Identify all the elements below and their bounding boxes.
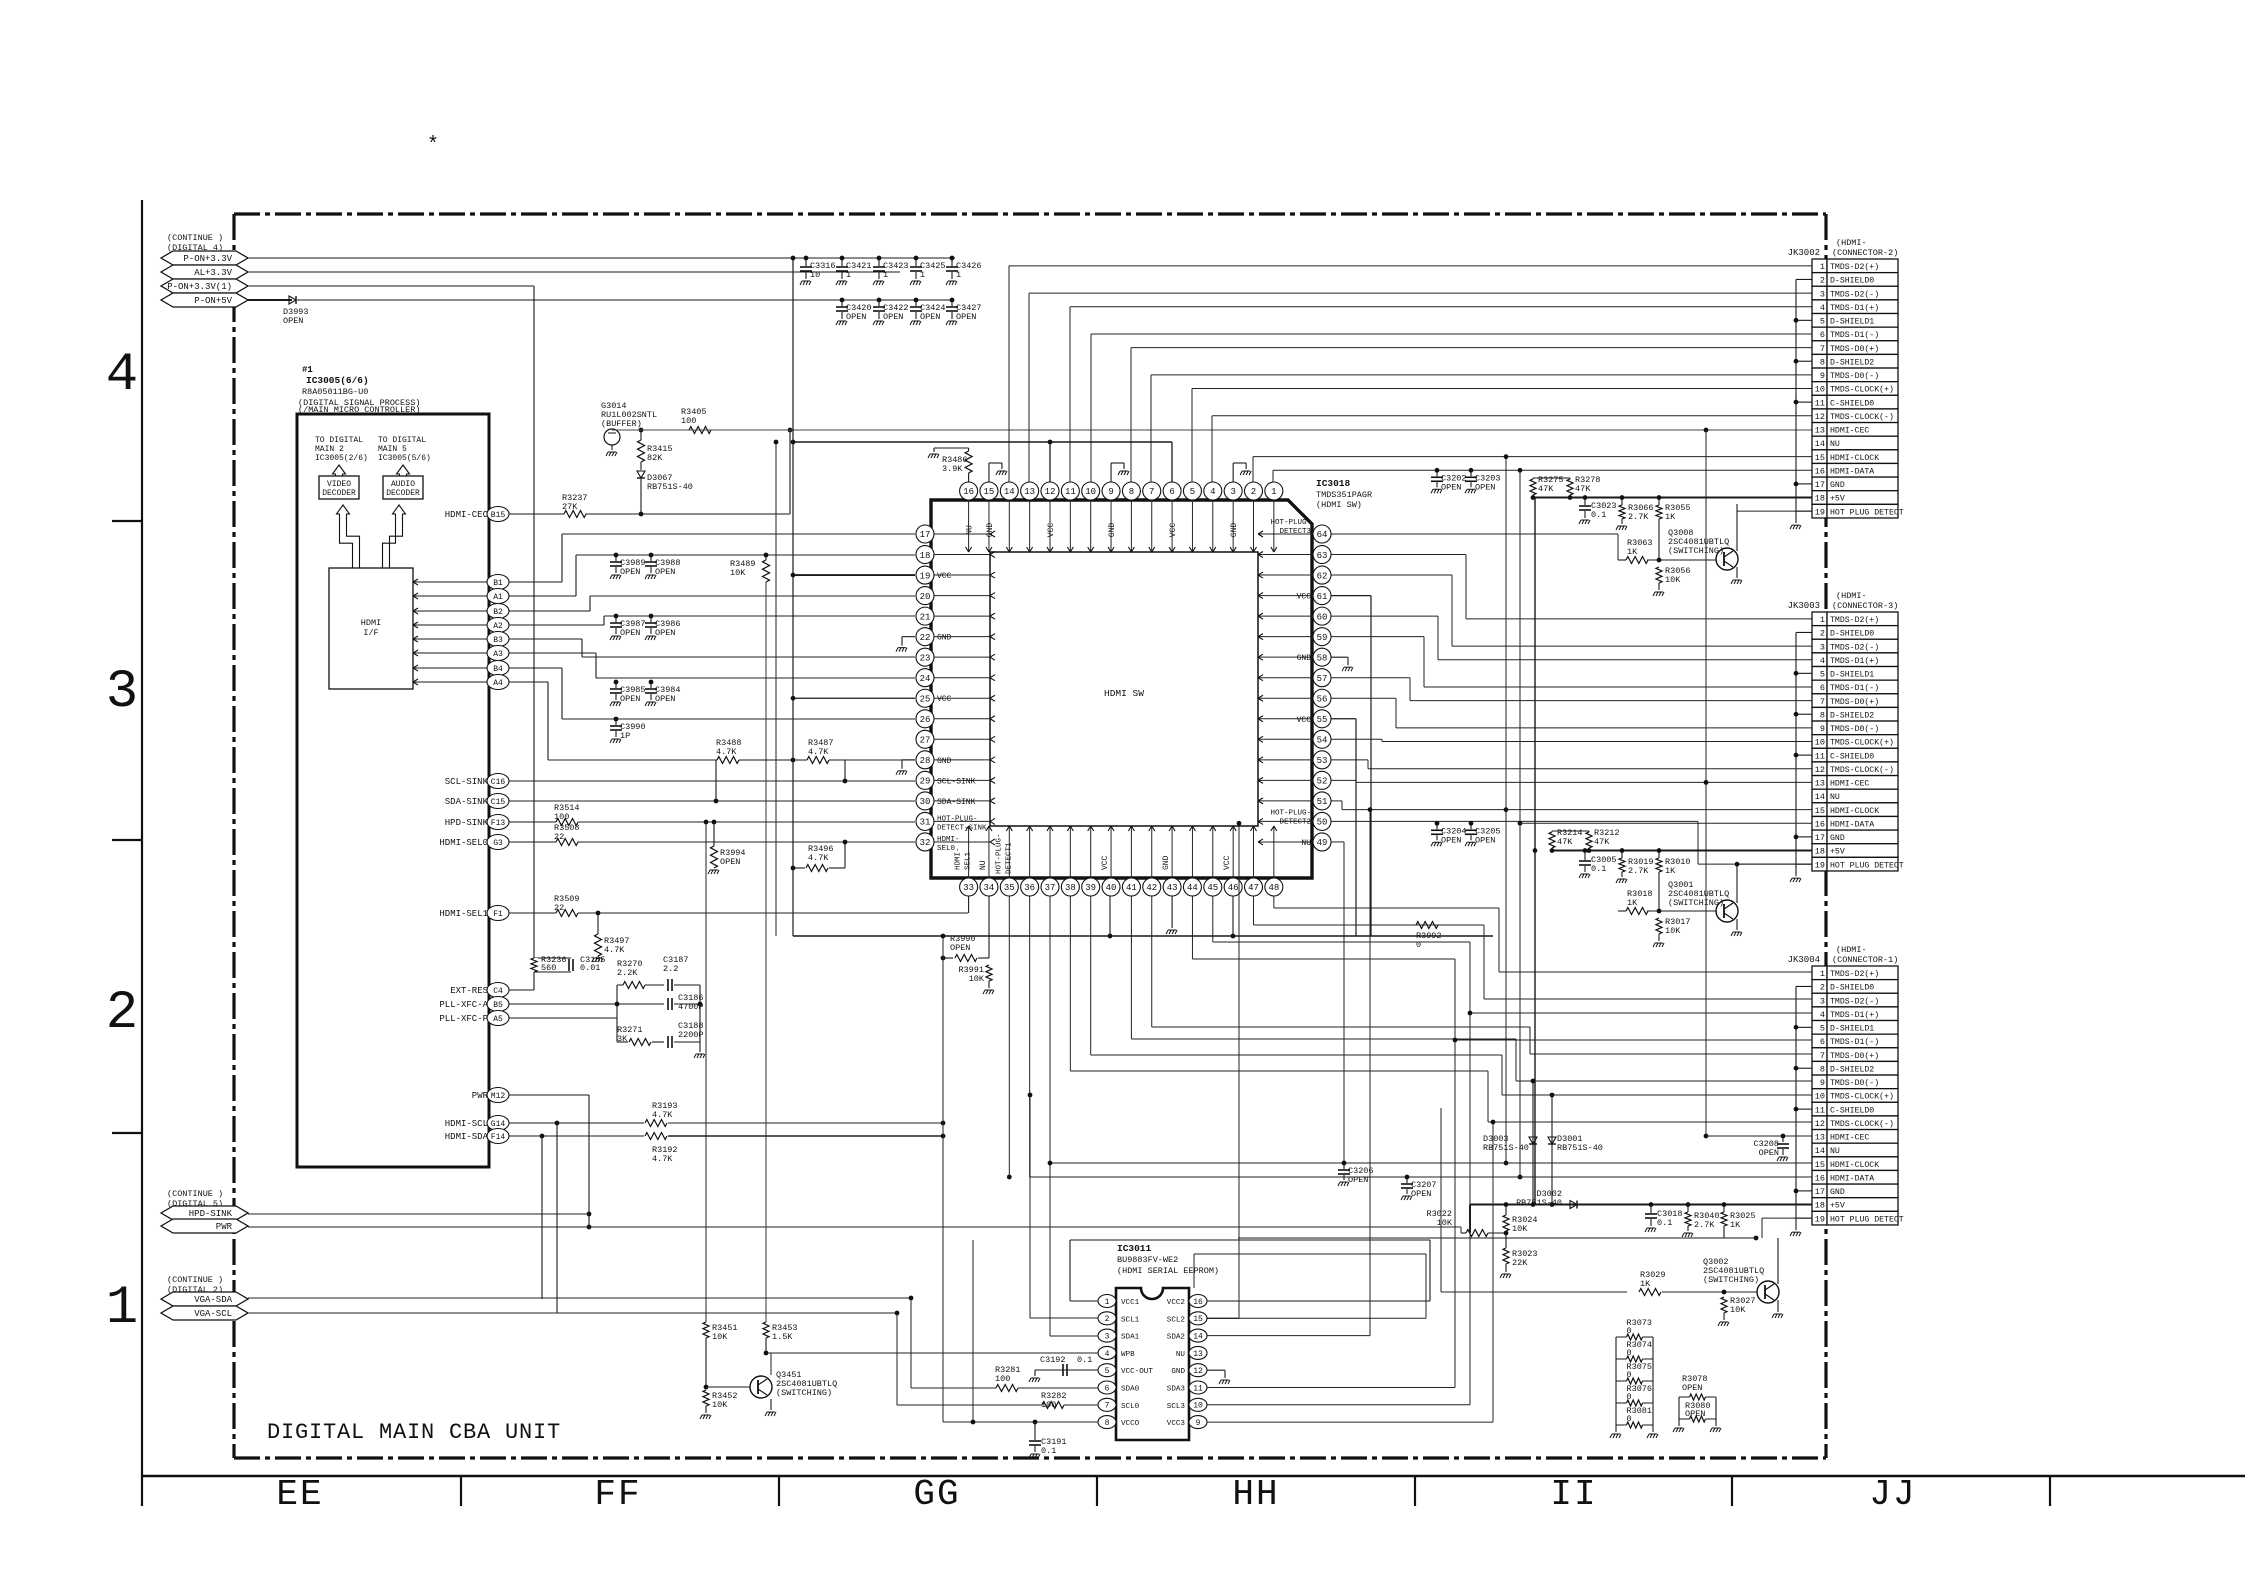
svg-text:0: 0 xyxy=(1627,1414,1632,1424)
svg-text:5: 5 xyxy=(1190,487,1195,497)
svg-text:A1: A1 xyxy=(493,593,503,602)
svg-text:4: 4 xyxy=(1210,487,1215,497)
svg-text:5: 5 xyxy=(1820,670,1825,680)
svg-text:GND: GND xyxy=(1830,481,1845,490)
svg-text:10: 10 xyxy=(1085,487,1096,497)
svg-text:NU: NU xyxy=(966,525,975,535)
svg-text:3: 3 xyxy=(1230,487,1235,497)
svg-text:9: 9 xyxy=(1820,371,1825,381)
svg-text:(SWITCHING): (SWITCHING) xyxy=(1668,898,1724,908)
svg-text:19: 19 xyxy=(1815,1214,1825,1224)
svg-text:10K: 10K xyxy=(1665,926,1681,936)
svg-text:11: 11 xyxy=(1193,1384,1203,1393)
svg-text:2: 2 xyxy=(1820,629,1825,639)
svg-text:TMDS-D2(+): TMDS-D2(+) xyxy=(1830,615,1879,625)
svg-text:BU9883FV-WE2: BU9883FV-WE2 xyxy=(1117,1255,1178,1265)
svg-text:39: 39 xyxy=(1085,883,1096,893)
svg-text:A2: A2 xyxy=(493,622,503,631)
svg-text:44: 44 xyxy=(1187,883,1198,893)
svg-text:HOT PLUG DETECT: HOT PLUG DETECT xyxy=(1830,861,1904,870)
svg-text:47: 47 xyxy=(1248,883,1259,893)
svg-text:30: 30 xyxy=(920,797,931,807)
svg-text:OPEN: OPEN xyxy=(1759,1148,1779,1158)
svg-text:15: 15 xyxy=(1193,1315,1203,1324)
svg-text:10K: 10K xyxy=(712,1332,728,1342)
svg-text:10K: 10K xyxy=(1665,575,1681,585)
svg-text:42: 42 xyxy=(1146,883,1157,893)
svg-text:VCC2: VCC2 xyxy=(1167,1299,1186,1307)
svg-text:GND: GND xyxy=(937,634,952,643)
svg-text:38: 38 xyxy=(1065,883,1076,893)
svg-text:NU: NU xyxy=(1830,1147,1840,1156)
svg-text:P-ON+5V: P-ON+5V xyxy=(194,296,232,306)
svg-text:OPEN: OPEN xyxy=(1411,1189,1431,1199)
svg-text:TMDS-D2(-): TMDS-D2(-) xyxy=(1830,996,1879,1006)
svg-text:60: 60 xyxy=(1317,612,1328,622)
svg-text:RB751S-40: RB751S-40 xyxy=(1516,1198,1562,1208)
svg-text:GND: GND xyxy=(937,757,952,766)
svg-text:56: 56 xyxy=(1317,694,1328,704)
svg-text:HOT PLUG DETECT: HOT PLUG DETECT xyxy=(1830,508,1904,517)
svg-text:SDA-SINK: SDA-SINK xyxy=(445,797,489,807)
svg-text:0.1: 0.1 xyxy=(1041,1446,1056,1456)
svg-text:6: 6 xyxy=(1169,487,1174,497)
svg-text:6: 6 xyxy=(1820,1037,1825,1047)
svg-text:D-SHIELD0: D-SHIELD0 xyxy=(1830,984,1874,993)
svg-text:HDMI-CEC: HDMI-CEC xyxy=(1830,780,1869,789)
svg-text:EXT-RES: EXT-RES xyxy=(450,986,488,996)
svg-text:47K: 47K xyxy=(1594,837,1610,847)
svg-text:NU: NU xyxy=(979,860,988,870)
svg-text:29: 29 xyxy=(920,777,931,787)
svg-text:DETECT-SINK: DETECT-SINK xyxy=(937,824,987,832)
svg-text:HPD-SINK: HPD-SINK xyxy=(189,1209,233,1219)
svg-text:PLL-XFC-P: PLL-XFC-P xyxy=(439,1014,488,1024)
svg-text:VCC: VCC xyxy=(1047,523,1056,538)
svg-text:4: 4 xyxy=(1820,303,1825,313)
svg-text:F1: F1 xyxy=(493,910,503,919)
svg-text:34: 34 xyxy=(984,883,995,893)
svg-text:32: 32 xyxy=(920,838,931,848)
svg-text:100: 100 xyxy=(681,416,696,426)
svg-text:27: 27 xyxy=(920,736,931,746)
svg-text:HOT-PLUG-: HOT-PLUG- xyxy=(995,833,1003,874)
svg-text:VCC1: VCC1 xyxy=(1121,1299,1140,1307)
svg-text:1: 1 xyxy=(1820,262,1825,272)
svg-text:2: 2 xyxy=(106,983,138,1044)
svg-text:27K: 27K xyxy=(562,502,578,512)
svg-text:1: 1 xyxy=(846,270,851,280)
svg-text:2.7K: 2.7K xyxy=(1628,866,1649,876)
svg-text:NU: NU xyxy=(1176,1351,1186,1359)
svg-text:TMDS-CLOCK(+): TMDS-CLOCK(+) xyxy=(1830,385,1894,395)
svg-text:4.7K: 4.7K xyxy=(652,1154,673,1164)
svg-text:TMDS-D1(+): TMDS-D1(+) xyxy=(1830,656,1879,666)
svg-text:13: 13 xyxy=(1193,1350,1203,1359)
svg-text:I/F: I/F xyxy=(363,628,378,638)
svg-text:9: 9 xyxy=(1820,724,1825,734)
svg-text:16: 16 xyxy=(1815,1173,1825,1183)
svg-text:NU: NU xyxy=(1301,839,1311,848)
svg-text:47K: 47K xyxy=(1557,837,1573,847)
svg-text:TMDS-CLOCK(-): TMDS-CLOCK(-) xyxy=(1830,1119,1894,1129)
svg-text:16: 16 xyxy=(1815,819,1825,829)
svg-text:(HDMI-: (HDMI- xyxy=(1836,238,1867,248)
svg-text:(HDMI-: (HDMI- xyxy=(1836,945,1867,955)
svg-text:B15: B15 xyxy=(491,511,506,520)
svg-text:AL+3.3V: AL+3.3V xyxy=(194,268,232,278)
svg-text:SCL1: SCL1 xyxy=(1121,1316,1140,1324)
svg-text:17: 17 xyxy=(1815,1187,1825,1197)
svg-text:OPEN: OPEN xyxy=(956,312,976,322)
svg-text:15: 15 xyxy=(1815,1160,1825,1170)
svg-text:(HDMI-: (HDMI- xyxy=(1836,591,1867,601)
svg-text:SDA0: SDA0 xyxy=(1121,1386,1140,1394)
svg-text:AUDIO: AUDIO xyxy=(391,480,415,489)
svg-text:C-SHIELD0: C-SHIELD0 xyxy=(1830,1106,1874,1115)
svg-text:TMDS-CLOCK(-): TMDS-CLOCK(-) xyxy=(1830,765,1894,775)
svg-text:(SWITCHING): (SWITCHING) xyxy=(1703,1275,1759,1285)
svg-text:13: 13 xyxy=(1815,1133,1825,1143)
svg-text:HDMI-CEC: HDMI-CEC xyxy=(445,510,489,520)
svg-text:TMDS-D0(-): TMDS-D0(-) xyxy=(1830,371,1879,381)
svg-text:10: 10 xyxy=(810,270,820,280)
svg-text:48: 48 xyxy=(1268,883,1279,893)
svg-text:TMDS-D1(+): TMDS-D1(+) xyxy=(1830,303,1879,313)
svg-text:8: 8 xyxy=(1820,710,1825,720)
svg-text:D-SHIELD1: D-SHIELD1 xyxy=(1830,318,1874,327)
svg-text:64: 64 xyxy=(1317,530,1328,540)
svg-text:OPEN: OPEN xyxy=(846,312,866,322)
svg-text:TMDS-D1(-): TMDS-D1(-) xyxy=(1830,330,1879,340)
svg-text:F14: F14 xyxy=(491,1133,506,1142)
svg-text:54: 54 xyxy=(1317,736,1328,746)
svg-text:2.7K: 2.7K xyxy=(1694,1220,1715,1230)
svg-text:20: 20 xyxy=(920,592,931,602)
svg-text:VCC: VCC xyxy=(1297,593,1312,602)
svg-text:12: 12 xyxy=(1815,412,1825,422)
svg-text:TMDS-D2(-): TMDS-D2(-) xyxy=(1830,642,1879,652)
svg-text:HDMI: HDMI xyxy=(361,618,381,628)
svg-text:VCC: VCC xyxy=(937,572,952,581)
svg-text:GND: GND xyxy=(1830,834,1845,843)
svg-text:13: 13 xyxy=(1815,779,1825,789)
svg-text:0: 0 xyxy=(1627,1392,1632,1402)
svg-text:HDMI SW: HDMI SW xyxy=(1104,688,1144,699)
svg-text:40: 40 xyxy=(1106,883,1117,893)
svg-text:P-ON+3.3V(1): P-ON+3.3V(1) xyxy=(167,282,232,292)
svg-text:A3: A3 xyxy=(493,650,503,659)
svg-text:HDMI-CEC: HDMI-CEC xyxy=(1830,1134,1869,1143)
svg-text:12: 12 xyxy=(1815,765,1825,775)
svg-text:G3: G3 xyxy=(493,839,503,848)
svg-text:(CONTINUE ): (CONTINUE ) xyxy=(167,233,223,243)
svg-text:1K: 1K xyxy=(1627,898,1638,908)
svg-text:II: II xyxy=(1550,1474,1597,1515)
svg-text:HDMI-CLOCK: HDMI-CLOCK xyxy=(1830,454,1879,463)
svg-text:OPEN: OPEN xyxy=(950,943,970,953)
svg-text:1K: 1K xyxy=(1665,866,1676,876)
svg-text:0: 0 xyxy=(1627,1370,1632,1380)
svg-text:C16: C16 xyxy=(491,778,506,787)
svg-text:36: 36 xyxy=(1024,883,1035,893)
svg-text:22: 22 xyxy=(554,903,564,913)
svg-text:TMDS-CLOCK(+): TMDS-CLOCK(+) xyxy=(1830,1092,1894,1102)
svg-text:45: 45 xyxy=(1207,883,1218,893)
svg-text:62: 62 xyxy=(1317,571,1328,581)
svg-text:OPEN: OPEN xyxy=(283,316,303,326)
svg-text:10K: 10K xyxy=(1730,1305,1746,1315)
svg-text:GND: GND xyxy=(1162,855,1171,870)
svg-text:OPEN: OPEN xyxy=(655,628,675,638)
svg-text:OPEN: OPEN xyxy=(1682,1383,1702,1393)
svg-text:9: 9 xyxy=(1196,1419,1201,1428)
svg-text:OPEN: OPEN xyxy=(920,312,940,322)
svg-text:D-SHIELD1: D-SHIELD1 xyxy=(1830,671,1874,680)
svg-text:HDMI-CEC: HDMI-CEC xyxy=(1830,427,1869,436)
svg-text:JJ: JJ xyxy=(1869,1474,1916,1515)
svg-text:GND: GND xyxy=(1297,654,1312,663)
svg-text:2.2: 2.2 xyxy=(663,964,678,974)
svg-text:4.7K: 4.7K xyxy=(808,853,829,863)
svg-text:VCC3: VCC3 xyxy=(1167,1420,1186,1428)
svg-text:10K: 10K xyxy=(1512,1224,1528,1234)
svg-text:SEL0: SEL0 xyxy=(937,845,956,853)
svg-text:47K: 47K xyxy=(1538,484,1554,494)
svg-text:22K: 22K xyxy=(1512,1258,1528,1268)
svg-text:51: 51 xyxy=(1317,797,1328,807)
svg-text:(CONNECTOR-2): (CONNECTOR-2) xyxy=(1832,248,1898,258)
svg-text:82K: 82K xyxy=(647,453,663,463)
svg-text:HDMI-CLOCK: HDMI-CLOCK xyxy=(1830,807,1879,816)
svg-text:14: 14 xyxy=(1815,439,1825,449)
svg-text:PLL-XFC-A: PLL-XFC-A xyxy=(439,1000,488,1010)
svg-text:8: 8 xyxy=(1105,1419,1110,1428)
svg-text:57: 57 xyxy=(1317,674,1328,684)
svg-text:TO DIGITAL: TO DIGITAL xyxy=(378,436,426,445)
svg-text:7: 7 xyxy=(1149,487,1154,497)
svg-text:C4: C4 xyxy=(493,987,503,996)
svg-text:14: 14 xyxy=(1193,1332,1203,1341)
svg-text:22: 22 xyxy=(554,832,564,842)
svg-text:D-SHIELD1: D-SHIELD1 xyxy=(1830,1025,1874,1034)
svg-text:15: 15 xyxy=(984,487,995,497)
svg-text:4.7K: 4.7K xyxy=(716,747,737,757)
svg-text:HDMI-SCL: HDMI-SCL xyxy=(445,1119,488,1129)
svg-text:TMDS-D1(-): TMDS-D1(-) xyxy=(1830,1037,1879,1047)
svg-text:3K: 3K xyxy=(617,1034,628,1044)
svg-text:DECODER: DECODER xyxy=(322,489,356,498)
svg-text:4: 4 xyxy=(1820,656,1825,666)
svg-text:P-ON+3.3V: P-ON+3.3V xyxy=(183,254,232,264)
svg-text:IC3018: IC3018 xyxy=(1316,478,1351,489)
svg-text:IC3005(2/6): IC3005(2/6) xyxy=(315,454,368,463)
svg-text:(CONTINUE ): (CONTINUE ) xyxy=(167,1275,223,1285)
svg-text:23: 23 xyxy=(920,653,931,663)
svg-text:HDMI-: HDMI- xyxy=(937,836,960,844)
svg-text:A4: A4 xyxy=(493,679,503,688)
svg-text:JK3003: JK3003 xyxy=(1788,601,1820,611)
svg-text:B2: B2 xyxy=(493,608,503,617)
svg-text:TMDS-D0(-): TMDS-D0(-) xyxy=(1830,1078,1879,1088)
svg-text:IC3005(6/6): IC3005(6/6) xyxy=(306,375,369,386)
svg-text:41: 41 xyxy=(1126,883,1137,893)
svg-text:HDMI-DATA: HDMI-DATA xyxy=(1830,467,1874,476)
svg-text:31: 31 xyxy=(920,818,931,828)
svg-text:1.5K: 1.5K xyxy=(772,1332,793,1342)
svg-text:JK3004: JK3004 xyxy=(1788,955,1820,965)
svg-text:4: 4 xyxy=(1820,1010,1825,1020)
svg-text:OPEN: OPEN xyxy=(883,312,903,322)
svg-text:2.2K: 2.2K xyxy=(617,968,638,978)
svg-text:58: 58 xyxy=(1317,653,1328,663)
svg-text:63: 63 xyxy=(1317,551,1328,561)
svg-text:WPB: WPB xyxy=(1121,1351,1135,1359)
svg-text:VCC: VCC xyxy=(1297,716,1312,725)
svg-text:OPEN: OPEN xyxy=(1441,835,1461,845)
svg-text:7: 7 xyxy=(1820,344,1825,354)
svg-text:18: 18 xyxy=(1815,847,1825,857)
svg-text:1: 1 xyxy=(1105,1298,1110,1307)
svg-text:(BUFFER): (BUFFER) xyxy=(601,419,642,429)
svg-text:VCC-OUT: VCC-OUT xyxy=(1121,1368,1153,1376)
svg-text:VCC: VCC xyxy=(1101,855,1110,870)
svg-text:C-SHIELD0: C-SHIELD0 xyxy=(1830,752,1874,761)
svg-text:F13: F13 xyxy=(491,819,506,828)
svg-text:OPEN: OPEN xyxy=(1475,835,1495,845)
svg-text:12: 12 xyxy=(1815,1119,1825,1129)
svg-text:13: 13 xyxy=(1815,426,1825,436)
svg-text:HDMI-DATA: HDMI-DATA xyxy=(1830,820,1874,829)
svg-text:10: 10 xyxy=(1815,738,1825,748)
svg-text:1K: 1K xyxy=(1640,1279,1651,1289)
svg-text:0.01: 0.01 xyxy=(580,963,600,973)
svg-text:2: 2 xyxy=(1820,276,1825,286)
svg-text:SDA2: SDA2 xyxy=(1167,1334,1186,1342)
svg-text:(HDMI SERIAL EEPROM): (HDMI SERIAL EEPROM) xyxy=(1117,1266,1219,1276)
svg-text:6: 6 xyxy=(1820,683,1825,693)
svg-text:1: 1 xyxy=(106,1278,138,1339)
svg-text:12: 12 xyxy=(1193,1367,1203,1376)
svg-text:3: 3 xyxy=(106,662,138,723)
svg-text:53: 53 xyxy=(1317,756,1328,766)
svg-text:10: 10 xyxy=(1815,1092,1825,1102)
svg-text:11: 11 xyxy=(1815,398,1825,408)
svg-text:1K: 1K xyxy=(1627,547,1638,557)
svg-text:OPEN: OPEN xyxy=(620,694,640,704)
svg-text:2.7K: 2.7K xyxy=(1628,512,1649,522)
svg-text:RB751S-40: RB751S-40 xyxy=(1557,1143,1603,1153)
svg-text:TMDS-D0(-): TMDS-D0(-) xyxy=(1830,724,1879,734)
svg-text:TMDS-D2(+): TMDS-D2(+) xyxy=(1830,262,1879,272)
svg-text:HPD-SINK: HPD-SINK xyxy=(445,818,489,828)
svg-text:1: 1 xyxy=(1820,969,1825,979)
svg-text:HOT-PLUG-: HOT-PLUG- xyxy=(937,815,978,823)
svg-text:(CONNECTOR-3): (CONNECTOR-3) xyxy=(1832,601,1898,611)
svg-text:HOT-PLUG-: HOT-PLUG- xyxy=(1270,809,1311,817)
svg-text:4.7K: 4.7K xyxy=(604,945,625,955)
svg-text:JK3002: JK3002 xyxy=(1788,248,1820,258)
svg-text:RB751S-40: RB751S-40 xyxy=(1483,1143,1529,1153)
svg-text:VCC: VCC xyxy=(937,695,952,704)
svg-text:21: 21 xyxy=(920,612,931,622)
svg-text:SCL3: SCL3 xyxy=(1167,1403,1186,1411)
svg-text:12: 12 xyxy=(1045,487,1056,497)
svg-text:3: 3 xyxy=(1820,996,1825,1006)
svg-text:+5V: +5V xyxy=(1830,848,1845,857)
svg-text:A5: A5 xyxy=(493,1015,503,1024)
svg-text:100: 100 xyxy=(995,1374,1010,1384)
svg-text:17: 17 xyxy=(1815,480,1825,490)
svg-text:VGA-SDA: VGA-SDA xyxy=(194,1295,232,1305)
svg-text:2: 2 xyxy=(1105,1315,1110,1324)
svg-text:C15: C15 xyxy=(491,798,506,807)
svg-text:0.1: 0.1 xyxy=(1077,1355,1092,1365)
svg-text:HDMI-DATA: HDMI-DATA xyxy=(1830,1174,1874,1183)
svg-text:GND: GND xyxy=(986,523,995,538)
svg-text:10K: 10K xyxy=(969,974,985,984)
svg-text:C-SHIELD0: C-SHIELD0 xyxy=(1830,399,1874,408)
svg-text:HDMI-CLOCK: HDMI-CLOCK xyxy=(1830,1161,1879,1170)
svg-text:8: 8 xyxy=(1820,1064,1825,1074)
svg-text:VCC: VCC xyxy=(1169,523,1178,538)
svg-text:PWR: PWR xyxy=(216,1222,233,1232)
svg-text:OPEN: OPEN xyxy=(620,628,640,638)
svg-text:13: 13 xyxy=(1024,487,1035,497)
svg-text:TMDS-D0(+): TMDS-D0(+) xyxy=(1830,1051,1879,1061)
svg-text:DETECT1: DETECT1 xyxy=(1005,842,1013,874)
svg-text:TMDS-CLOCK(+): TMDS-CLOCK(+) xyxy=(1830,738,1894,748)
svg-text:TMDS-D2(-): TMDS-D2(-) xyxy=(1830,289,1879,299)
svg-text:0: 0 xyxy=(1627,1326,1632,1336)
svg-text:5: 5 xyxy=(1820,1024,1825,1034)
svg-text:IC3005(5/6): IC3005(5/6) xyxy=(378,454,431,463)
svg-text:SDA1: SDA1 xyxy=(1121,1334,1140,1342)
svg-text:NU: NU xyxy=(1830,440,1840,449)
svg-text:GND: GND xyxy=(1108,523,1117,538)
svg-text:22: 22 xyxy=(920,633,931,643)
svg-text:+5V: +5V xyxy=(1830,1202,1845,1211)
svg-text:3: 3 xyxy=(1820,642,1825,652)
svg-text:14: 14 xyxy=(1004,487,1015,497)
svg-text:GND: GND xyxy=(1830,1188,1845,1197)
svg-text:OPEN: OPEN xyxy=(720,857,740,867)
svg-text:DIGITAL MAIN CBA UNIT: DIGITAL MAIN CBA UNIT xyxy=(267,1420,561,1445)
svg-text:NU: NU xyxy=(1830,793,1840,802)
svg-text:M12: M12 xyxy=(491,1092,506,1101)
svg-text:19: 19 xyxy=(920,571,931,581)
svg-text:17: 17 xyxy=(1815,833,1825,843)
svg-text:HDMI-SEL1: HDMI-SEL1 xyxy=(439,909,488,919)
svg-text:25: 25 xyxy=(920,694,931,704)
svg-text:D-SHIELD2: D-SHIELD2 xyxy=(1830,1065,1874,1074)
svg-text:(/MAIN MICRO CONTROLLER): (/MAIN MICRO CONTROLLER) xyxy=(298,405,420,415)
svg-text:OPEN: OPEN xyxy=(620,567,640,577)
svg-text:14: 14 xyxy=(1815,1146,1825,1156)
svg-text:560: 560 xyxy=(541,963,556,973)
svg-text:SDA3: SDA3 xyxy=(1167,1386,1186,1394)
svg-text:46: 46 xyxy=(1228,883,1239,893)
svg-text:18: 18 xyxy=(1815,494,1825,504)
svg-text:HOT PLUG DETECT: HOT PLUG DETECT xyxy=(1830,1215,1904,1224)
svg-text:OPEN: OPEN xyxy=(1348,1175,1368,1185)
svg-text:C3192: C3192 xyxy=(1040,1355,1066,1365)
svg-text:DECODER: DECODER xyxy=(386,489,420,498)
svg-text:10: 10 xyxy=(1815,385,1825,395)
svg-text:TMDS351PAGR: TMDS351PAGR xyxy=(1316,490,1372,500)
svg-text:G14: G14 xyxy=(491,1120,506,1129)
svg-text:HH: HH xyxy=(1232,1474,1279,1515)
